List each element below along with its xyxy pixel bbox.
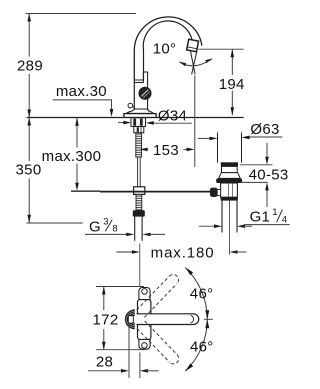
svg-text:max.300: max.300: [42, 148, 102, 165]
svg-text:46°: 46°: [190, 285, 214, 302]
top view: swivel bearing arcs: [126, 310, 135, 328]
drain tailpipe: [221, 201, 223, 233]
svg-text:max.30: max.30: [56, 83, 107, 100]
bearing clamp notch: [128, 316, 133, 323]
svg-text:Ø34: Ø34: [158, 107, 187, 124]
drain plug rim: [221, 162, 238, 166]
horizontal pop-up rod: [100, 191, 211, 193]
bottom stub: [139, 340, 150, 350]
svg-text:3: 3: [103, 217, 108, 228]
dimension 172: [96, 286, 144, 288]
rear spout column: [143, 72, 147, 110]
dashed spout rotated 46deg down: [137, 321, 181, 366]
drain plug body: [222, 166, 238, 172]
mounting nut below deck (slotted): [131, 118, 146, 127]
drain body lower band: [221, 197, 238, 200]
dimension 153 (spout reach): [140, 148, 148, 152]
svg-text:4: 4: [282, 214, 287, 225]
46deg swivel dimension arc: [185, 268, 207, 372]
top view: tap body: [138, 300, 151, 340]
svg-text:289: 289: [17, 58, 43, 75]
dimension 28: [128, 324, 130, 379]
dimension max.180: [116, 251, 132, 253]
drain O63 extension lines: [217, 133, 219, 163]
spout outlet centerline extension: [194, 76, 196, 168]
svg-text:8: 8: [112, 224, 117, 235]
dimension 40-53: [240, 164, 273, 166]
deck / mounting surface line: [27, 117, 124, 119]
dashed spout rotated +46deg up: [137, 272, 181, 317]
svg-text:1: 1: [272, 207, 277, 218]
pop-up lever ball nut: [210, 188, 217, 197]
svg-text:G: G: [89, 218, 101, 235]
tap centerline: [139, 244, 141, 287]
svg-text:Ø63: Ø63: [250, 121, 279, 138]
10deg swivel arc arrow: [179, 59, 212, 66]
drain centerline: [229, 201, 231, 255]
threaded rod: [136, 133, 142, 157]
svg-text:153: 153: [153, 142, 179, 159]
lower threaded rod: [136, 194, 142, 210]
dimension G1 1/4: [199, 225, 217, 227]
supply hose: [134, 217, 136, 241]
svg-text:46°: 46°: [190, 339, 214, 356]
base escutcheon bell: [126, 109, 153, 113]
faucet gooseneck spout outline: [134, 17, 202, 80]
dimension 194 (spout height): [199, 48, 244, 50]
collar: [134, 127, 144, 133]
svg-text:40-53: 40-53: [249, 167, 289, 184]
svg-text:172: 172: [93, 311, 119, 328]
svg-text:10°: 10°: [153, 41, 177, 58]
pop-up linkage joint: [134, 187, 145, 195]
drain gasket band: [216, 178, 242, 183]
top view: spout bar (solid position): [137, 314, 199, 325]
svg-text:28: 28: [96, 354, 113, 371]
svg-text:194: 194: [219, 76, 245, 93]
handle knob: [139, 87, 151, 99]
thin pull rod: [138, 157, 141, 187]
spout outlet nozzle (aerator): [187, 39, 199, 52]
svg-text:G1: G1: [250, 209, 271, 226]
faucet body: [133, 80, 135, 110]
drain body: [221, 183, 238, 197]
svg-text:max.180: max.180: [151, 244, 215, 261]
svg-text:350: 350: [16, 162, 42, 179]
base flange plate: [124, 114, 156, 118]
hose nut: [133, 210, 145, 216]
dimension 350 (below deck): [28, 118, 30, 162]
dimension 289 (height of tap): [26, 13, 137, 15]
pop-up rod top knob: [128, 103, 133, 108]
10deg spray cone lines: [191, 52, 196, 75]
top stub: [139, 288, 150, 300]
drain flange cone: [219, 173, 241, 179]
